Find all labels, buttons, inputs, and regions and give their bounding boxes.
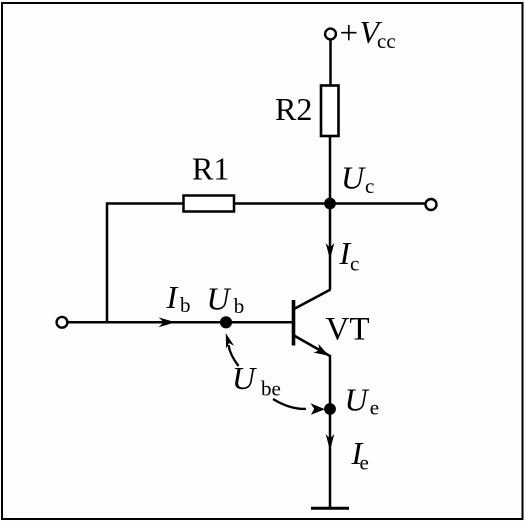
transistor collector diagonal (294, 290, 331, 310)
svg-text:I: I (166, 279, 179, 315)
svg-text:c: c (365, 174, 374, 198)
wire emitter vertical (329, 355, 332, 508)
ground (311, 507, 349, 510)
svg-text:VT: VT (326, 311, 370, 347)
label Ic (339, 235, 360, 276)
node Ub (220, 316, 232, 328)
wire left corner to R1 (107, 204, 184, 323)
arrow Ic (326, 243, 335, 260)
svg-text:U: U (341, 160, 366, 196)
svg-text:e: e (370, 396, 379, 420)
node Ue (324, 403, 336, 415)
pointer arrow Ube to node Ub (226, 333, 239, 366)
transistor emitter arrowhead (314, 344, 330, 356)
wire collector vertical (329, 204, 332, 290)
label +Vcc (340, 14, 396, 53)
label Ue (345, 382, 380, 420)
transistor VT base bar (292, 300, 296, 346)
label Ube (232, 360, 281, 400)
arrow Ib (159, 317, 176, 327)
terminal +Vcc (325, 29, 336, 40)
pointer arrow Ube to node Ue (273, 399, 325, 415)
svg-text:b: b (234, 294, 245, 318)
svg-text:U: U (232, 360, 257, 396)
svg-text:U: U (207, 281, 232, 317)
svg-text:+: + (340, 16, 359, 52)
wire base (68, 321, 293, 324)
node Uc (324, 198, 336, 210)
label Ub (207, 281, 245, 318)
arrow Ie (326, 434, 335, 451)
svg-text:R2: R2 (275, 91, 312, 127)
svg-text:c: c (350, 252, 359, 276)
svg-text:b: b (180, 293, 191, 317)
resistor R2 (321, 86, 339, 137)
svg-text:U: U (345, 382, 370, 418)
svg-text:R1: R1 (192, 151, 229, 187)
wire R1 to node Uc and to output terminal (234, 202, 426, 205)
label Uc (341, 160, 374, 199)
terminal output right (426, 199, 437, 210)
svg-text:e: e (360, 450, 369, 474)
svg-text:cc: cc (377, 29, 396, 53)
label Ie (351, 435, 369, 475)
wire R2 to node Uc (329, 136, 332, 204)
resistor R1 (184, 196, 235, 212)
label Ib (166, 279, 191, 317)
svg-text:be: be (261, 376, 281, 400)
terminal input left (57, 317, 68, 328)
wire Vcc to R2 (329, 40, 332, 86)
transistor emitter diagonal (294, 336, 330, 357)
